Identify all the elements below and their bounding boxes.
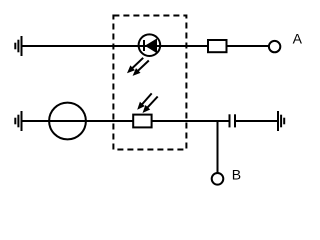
wire (junction drop to terminal B) — [217, 121, 219, 173]
svg-text:A: A — [293, 31, 303, 47]
wire (bottom rail: ground through source and photodetector to capacitor) — [22, 120, 230, 122]
LED light arrows — [127, 58, 149, 76]
wire (resistor to terminal A) — [227, 45, 270, 47]
svg-text:B: B — [232, 167, 241, 183]
capacitor — [230, 114, 236, 127]
ground (top left) — [15, 36, 21, 56]
ground (bottom left) — [15, 111, 21, 131]
optocoupler dashed enclosure — [113, 16, 186, 150]
wire (top rail: ground to LED) — [22, 45, 140, 47]
terminal B — [212, 173, 224, 185]
wire (capacitor to right ground) — [235, 120, 278, 122]
wire (LED to resistor) — [160, 45, 208, 47]
photodetector (IEC box) — [133, 115, 151, 128]
resistor (IEC box) — [208, 40, 227, 52]
ground (right) — [278, 111, 284, 131]
LED (emitting diode in circle) — [139, 34, 161, 56]
photodetector light arrows — [137, 93, 158, 113]
source (circle) — [49, 103, 86, 140]
terminal A — [269, 41, 280, 52]
wire (through LED circle) — [139, 45, 160, 47]
